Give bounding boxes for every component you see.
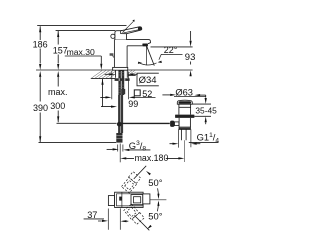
- svg-text:max.180: max.180: [135, 153, 169, 163]
- svg-text:300: 300: [50, 101, 65, 111]
- svg-text:37: 37: [87, 210, 97, 220]
- svg-text:50°: 50°: [148, 211, 162, 222]
- svg-text:max.30: max.30: [67, 47, 95, 57]
- svg-text:max.: max.: [48, 87, 68, 97]
- svg-text:186: 186: [33, 40, 48, 50]
- svg-text:50°: 50°: [148, 177, 162, 188]
- svg-text:93: 93: [185, 52, 196, 63]
- svg-text:Ø63: Ø63: [175, 87, 193, 97]
- svg-text:Ø34: Ø34: [139, 75, 157, 86]
- svg-text:390: 390: [33, 103, 48, 113]
- svg-text:157: 157: [53, 45, 68, 55]
- svg-text:52: 52: [142, 89, 152, 99]
- svg-text:22°: 22°: [164, 45, 178, 55]
- svg-text:35-45: 35-45: [195, 106, 217, 116]
- svg-text:99: 99: [128, 99, 138, 109]
